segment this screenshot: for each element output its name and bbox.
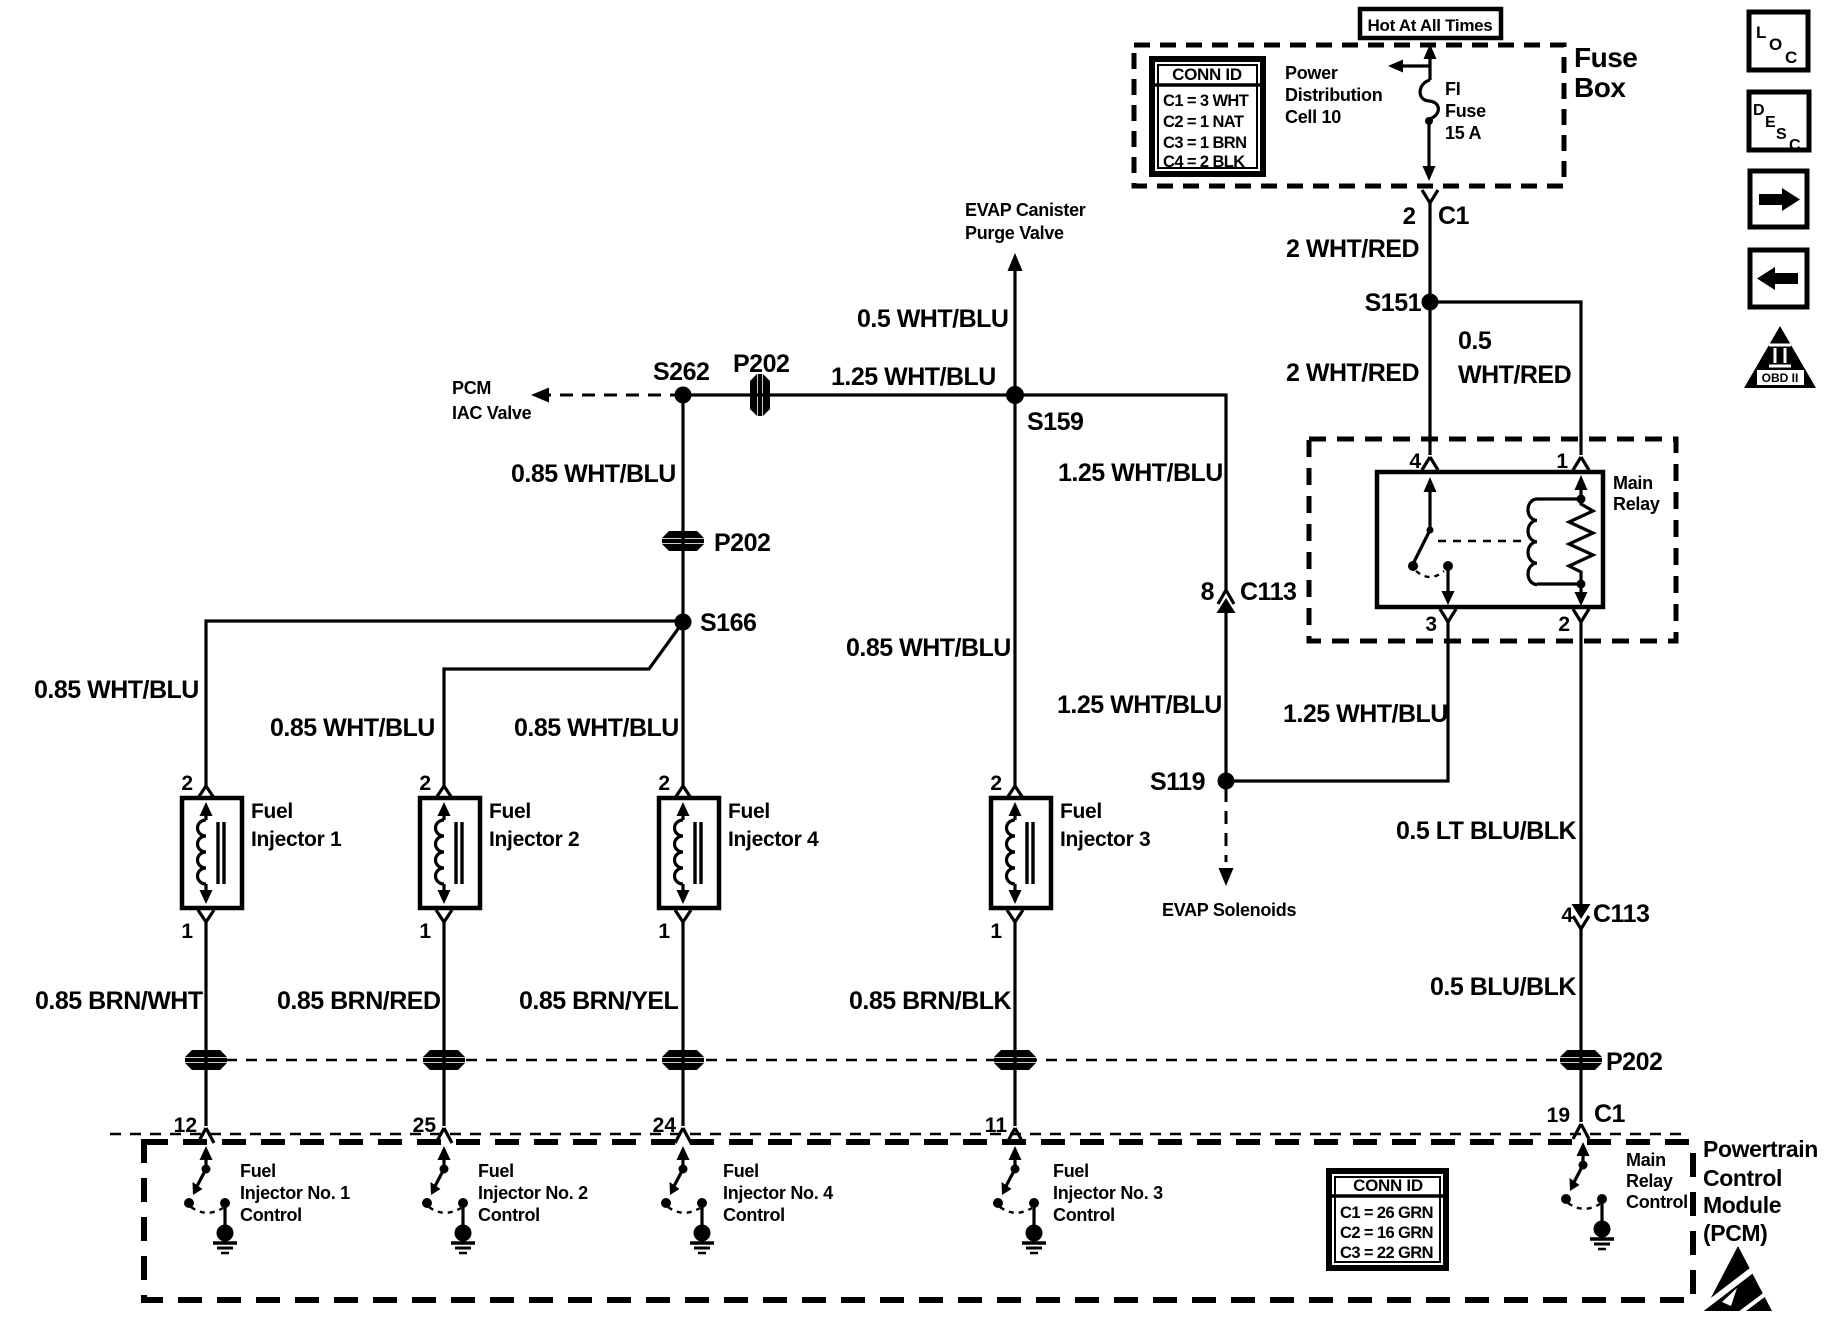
svg-text:(PCM): (PCM) [1703,1220,1767,1246]
fuel injector no. 1 driver [184,1146,237,1253]
prev-page arrow icon [1750,250,1807,307]
svg-text:1: 1 [181,920,193,943]
svg-text:25: 25 [413,1114,437,1137]
svg-text:Main: Main [1626,1150,1666,1170]
connector C1 pin 2 below fuse box [1422,190,1438,302]
svg-text:0.85 WHT/BLU: 0.85 WHT/BLU [846,634,1011,662]
svg-text:24: 24 [653,1114,677,1137]
svg-text:1: 1 [658,920,670,943]
fuel injector no. 3 driver [993,1146,1046,1253]
svg-text:Fuse: Fuse [1445,101,1486,121]
wire S262 down to injector 4 [681,395,684,786]
P202 pass-through (mid) [662,531,704,551]
svg-text:FI: FI [1445,79,1460,99]
svg-text:C1: C1 [1594,1100,1626,1128]
svg-text:OBD II: OBD II [1762,371,1799,385]
svg-text:Injector No. 3: Injector No. 3 [1053,1183,1163,1203]
svg-text:0.85 BRN/WHT: 0.85 BRN/WHT [35,987,203,1015]
svg-text:2: 2 [181,772,193,795]
svg-text:4: 4 [1409,450,1421,473]
svg-text:2: 2 [1403,203,1416,230]
svg-text:EVAP Canister: EVAP Canister [965,200,1086,220]
svg-text:Control: Control [1053,1205,1115,1225]
svg-text:O: O [1769,35,1782,54]
svg-text:Control: Control [240,1205,302,1225]
svg-text:Control: Control [1703,1165,1782,1191]
Fuse Box dashed enclosure [1134,45,1564,186]
svg-text:2: 2 [990,772,1002,795]
svg-text:0.85 WHT/BLU: 0.85 WHT/BLU [270,714,435,742]
svg-text:Injector 3: Injector 3 [1060,828,1150,851]
svg-text:0.85 WHT/BLU: 0.85 WHT/BLU [514,714,679,742]
ESD warning symbol [1700,1246,1772,1313]
wire relay pin 2 down to C113 pin 4 [1579,622,1582,906]
fuel injector 4 [658,772,819,1126]
main relay body [1377,472,1603,607]
svg-text:Fuel: Fuel [240,1161,276,1181]
main relay dashed enclosure [1309,439,1676,641]
splice S151 [1422,294,1439,311]
svg-text:15 A: 15 A [1445,123,1481,143]
wire EVAP valve down to injector 3 [1013,267,1016,786]
svg-text:C1: C1 [1438,202,1470,230]
svg-text:C2 = 16 GRN: C2 = 16 GRN [1340,1224,1433,1242]
svg-text:0.5 LT BLU/BLK: 0.5 LT BLU/BLK [1396,817,1576,845]
svg-text:C1 = 3 WHT: C1 = 3 WHT [1163,92,1249,110]
relay coil exit arrow [1575,584,1588,606]
svg-text:Relay: Relay [1626,1171,1673,1191]
svg-text:1.25 WHT/BLU: 1.25 WHT/BLU [1283,700,1448,728]
wire S151 to relay pin 1 [1430,302,1581,455]
svg-text:Control: Control [478,1205,540,1225]
svg-text:C113: C113 [1240,578,1296,606]
svg-text:P202: P202 [733,350,789,378]
PCM pin 12 connector [198,1128,214,1143]
fuel injector no. 4 driver [661,1146,714,1253]
svg-text:C: C [1789,137,1801,154]
svg-text:P202: P202 [1606,1048,1662,1076]
svg-text:Power: Power [1285,63,1338,83]
next-page arrow icon [1750,171,1807,227]
P202 dashed interconnect line [206,1059,1581,1062]
svg-text:CONN ID: CONN ID [1353,1176,1423,1195]
fuel injector 1 [181,772,342,1126]
svg-text:Injector 4: Injector 4 [728,828,819,851]
svg-text:8: 8 [1201,578,1215,606]
svg-text:2 WHT/RED: 2 WHT/RED [1286,235,1419,263]
svg-text:IAC Valve: IAC Valve [452,403,532,423]
PCM pin 19 connector [1573,1124,1589,1139]
svg-text:S166: S166 [700,609,756,637]
svg-text:1: 1 [419,920,431,943]
svg-text:0.85 WHT/BLU: 0.85 WHT/BLU [34,676,199,704]
splice S119 [1218,773,1235,790]
svg-text:4: 4 [1561,904,1573,927]
svg-text:1.25 WHT/BLU: 1.25 WHT/BLU [1057,691,1222,719]
svg-text:2 WHT/RED: 2 WHT/RED [1286,359,1419,387]
svg-text:Powertrain: Powertrain [1703,1136,1818,1162]
svg-text:0.5 BLU/BLK: 0.5 BLU/BLK [1430,973,1576,1001]
relay coil shunt resistor [1569,499,1593,584]
PCM pin 25 connector [436,1128,452,1143]
svg-text:S: S [1776,126,1787,143]
svg-text:L: L [1756,23,1766,42]
relay pin 1 connector [1573,457,1589,470]
svg-text:Injector 2: Injector 2 [489,828,579,851]
svg-text:Module: Module [1703,1192,1781,1218]
svg-text:WHT/RED: WHT/RED [1458,361,1571,389]
svg-text:0.85 WHT/BLU: 0.85 WHT/BLU [511,460,676,488]
svg-text:0.85 BRN/RED: 0.85 BRN/RED [277,987,441,1015]
svg-text:C3 = 1 BRN: C3 = 1 BRN [1163,134,1246,152]
relay pin 2 connector [1573,609,1589,622]
relay linkage (dashed) [1438,540,1522,542]
PCM C1 connector dashed line [110,1133,1688,1136]
svg-text:Distribution: Distribution [1285,85,1382,105]
svg-text:C: C [1785,48,1797,67]
svg-text:Injector No. 4: Injector No. 4 [723,1183,833,1203]
dashed wire to PCM IAC valve [547,394,683,397]
PCM dashed enclosure [144,1142,1693,1300]
svg-text:1.25 WHT/BLU: 1.25 WHT/BLU [831,363,996,391]
svg-text:S119: S119 [1150,768,1205,796]
P202 pass-through (injector 2) [423,1050,465,1070]
wire C113 pin 4 down to PCM pin 19 [1579,929,1582,1122]
svg-text:0.5 WHT/BLU: 0.5 WHT/BLU [857,305,1008,333]
svg-text:1.25 WHT/BLU: 1.25 WHT/BLU [1058,459,1223,487]
svg-text:Box: Box [1574,72,1626,103]
svg-text:Fuel: Fuel [251,800,293,823]
fuel injector 3 [990,772,1150,1126]
DESC icon [1749,92,1809,154]
svg-text:D: D [1753,102,1765,119]
svg-text:C1 = 26 GRN: C1 = 26 GRN [1340,1204,1433,1222]
svg-text:P202: P202 [714,529,770,557]
PCM pin 11 connector [1007,1128,1023,1143]
svg-text:S262: S262 [653,358,709,386]
P202 pass-through (right) [1560,1050,1602,1070]
CONN ID table (PCM) [1329,1171,1446,1268]
svg-text:Main: Main [1613,473,1653,493]
svg-text:Fuel: Fuel [723,1161,759,1181]
relay switch arm [1408,477,1455,605]
relay pin 3 connector [1440,609,1456,622]
svg-text:S151: S151 [1365,289,1422,317]
OBD II triangle icon [1744,326,1816,388]
svg-text:19: 19 [1547,1104,1570,1127]
svg-text:3: 3 [1425,613,1437,636]
svg-text:Fuel: Fuel [1060,800,1102,823]
svg-text:PCM: PCM [452,378,491,398]
CONN ID table (fuse box) [1152,59,1263,174]
LOC icon [1749,12,1808,70]
svg-text:S159: S159 [1027,408,1083,436]
fuel injector 2 [419,772,579,1126]
svg-text:Relay: Relay [1613,494,1660,514]
svg-text:C4 = 2 BLK: C4 = 2 BLK [1163,153,1245,171]
fuse F1 15A with feed arrows [1388,44,1438,181]
splice S166 [675,614,692,631]
dashed wire S119 to EVAP solenoids [1225,789,1228,862]
svg-text:Control: Control [1626,1192,1688,1212]
P202 pass-through (top wire) [750,374,770,416]
Hot At All Times banner [1360,9,1501,38]
main relay control driver [1561,1142,1614,1249]
relay pin 4 connector [1422,457,1438,470]
PCM pin 24 connector [675,1128,691,1143]
svg-text:EVAP Solenoids: EVAP Solenoids [1162,900,1296,920]
svg-text:2: 2 [658,772,670,795]
wire S166 to injector 2 [444,622,683,786]
fuel injector no. 2 driver [422,1146,475,1253]
svg-text:Fuse: Fuse [1574,42,1637,73]
P202 pass-through (injector 4) [662,1050,704,1070]
svg-text:2: 2 [1558,613,1570,636]
connector C113 pin 4 [1572,904,1591,919]
connector C113 pin 8 [1218,590,1234,604]
EVAP Canister Purge Valve arrow [1008,253,1023,271]
svg-text:Control: Control [723,1205,785,1225]
svg-text:2: 2 [419,772,431,795]
svg-text:C113: C113 [1593,900,1649,928]
svg-text:Fuel: Fuel [728,800,770,823]
svg-text:Injector No. 1: Injector No. 1 [240,1183,350,1203]
svg-text:C3 = 22 GRN: C3 = 22 GRN [1340,1244,1433,1262]
svg-text:0.5: 0.5 [1458,327,1492,355]
svg-text:Injector No. 2: Injector No. 2 [478,1183,588,1203]
svg-text:0.85 BRN/YEL: 0.85 BRN/YEL [519,987,679,1015]
svg-text:Cell 10: Cell 10 [1285,107,1341,127]
P202 pass-through (injector 3) [994,1050,1036,1070]
svg-text:1: 1 [990,920,1002,943]
splice S262 [675,387,692,404]
splice S159 [1006,386,1024,404]
svg-text:11: 11 [985,1114,1008,1137]
P202 pass-through (injector 1) [185,1050,227,1070]
wire S166 to injector 1 [206,621,683,786]
wire S262 to S159 to C113 pin 8 [683,395,1226,590]
svg-text:0.85 BRN/BLK: 0.85 BRN/BLK [849,987,1012,1015]
wire S119 to relay pin 3 [1226,622,1448,781]
svg-text:Fuel: Fuel [478,1161,514,1181]
wire S151 down to relay pin 4 [1428,302,1431,455]
svg-text:Fuel: Fuel [489,800,531,823]
relay coil [1528,475,1587,589]
svg-text:Purge Valve: Purge Valve [965,223,1064,243]
svg-text:CONN ID: CONN ID [1172,65,1242,84]
svg-text:E: E [1765,114,1776,131]
svg-text:Injector 1: Injector 1 [251,828,342,851]
svg-text:C2 = 1 NAT: C2 = 1 NAT [1163,113,1244,131]
svg-text:Fuel: Fuel [1053,1161,1089,1181]
svg-text:1: 1 [1556,450,1568,473]
svg-text:Hot At All Times: Hot At All Times [1368,16,1493,35]
svg-text:12: 12 [174,1114,197,1137]
